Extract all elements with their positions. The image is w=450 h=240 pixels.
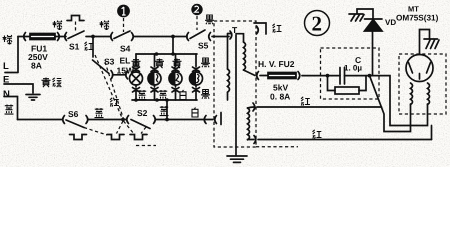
label red above S3 links [110, 98, 119, 107]
label red at transformer top [273, 24, 282, 33]
wire L to fuse with connector [18, 33, 30, 41]
motor3 bottom lead [193, 85, 200, 100]
terminal E wire [4, 84, 33, 93]
svg-text:2: 2 [312, 12, 323, 36]
chassis ground at magnetron [424, 39, 439, 49]
wire fuse to S1 with connector pair [55, 33, 67, 41]
svg-text:S3: S3 [104, 57, 115, 67]
wire HV lead to FU2 [257, 72, 268, 80]
lamp EL [130, 72, 143, 85]
label black at S5 [205, 15, 214, 24]
link junction to door hook 3 [124, 121, 135, 134]
branch S3 vertical [92, 37, 94, 58]
switch S3 [93, 60, 128, 79]
svg-text:VD: VD [385, 18, 396, 27]
link timer to S5 [196, 16, 198, 30]
svg-text:E: E [3, 75, 9, 86]
node at capacitor left [326, 74, 330, 78]
filament lead bottom (red) [248, 136, 432, 144]
loads feed from S4 node [172, 37, 174, 55]
svg-text:15W: 15W [117, 66, 135, 76]
resistor (bleeder) in parallel [328, 76, 367, 94]
svg-text:8A: 8A [31, 61, 42, 71]
label yellow-green at earth [42, 78, 62, 88]
terminal N wire [4, 97, 18, 120]
door hook bottom 1 [70, 135, 87, 140]
label white wire [192, 108, 198, 118]
label S1 [69, 42, 80, 52]
magnetron anode lead to ground [420, 30, 430, 55]
motor1 column top lead [151, 54, 158, 72]
capacitor enclosure box [321, 48, 380, 99]
lamp bottom lead [133, 85, 140, 100]
label blue after S6 [95, 108, 104, 118]
label L [3, 61, 9, 72]
svg-text:S1: S1 [69, 42, 80, 52]
link timer to S4 [123, 18, 125, 32]
chassis ground left of VD [349, 14, 364, 21]
svg-text:N: N [3, 89, 10, 100]
label S4 [120, 44, 131, 54]
svg-text:S2: S2 [137, 108, 148, 118]
callout circled 2 [305, 11, 330, 36]
svg-text:H. V. FU2: H. V. FU2 [258, 59, 295, 69]
transformer grounded core line [235, 35, 237, 155]
link door hook to S1 [75, 22, 77, 34]
enclosure bottom extension [256, 146, 298, 148]
label red at top filament wire [301, 97, 310, 106]
diode VD [365, 19, 383, 31]
door hook bottom 2 [107, 135, 124, 140]
link S3 to door hook diagonal long [95, 55, 123, 119]
node after S1 [91, 35, 95, 39]
motor2 bottom lead [172, 85, 179, 100]
label E [3, 75, 9, 86]
svg-text:T: T [232, 25, 238, 35]
left filament choke [411, 83, 413, 105]
label H.V. FU2 5kV 0.8A [258, 59, 295, 102]
lamp column top lead [133, 54, 140, 72]
rail to S2 node [166, 100, 168, 120]
connector on white wire [204, 116, 206, 124]
node wire to right choke [370, 76, 428, 126]
svg-text:EL: EL [120, 56, 131, 66]
label S5 [198, 41, 209, 51]
magnetron MT body [406, 55, 433, 82]
earth ground symbol [26, 95, 40, 101]
dashes under hook 3 [136, 145, 156, 147]
link junction to door hook 2 [117, 121, 124, 134]
label S2 [137, 108, 148, 118]
filament lead top (red) [248, 103, 382, 111]
label brown at terminal L [3, 35, 13, 45]
switch S6 [63, 116, 126, 128]
label EL 15W [117, 56, 135, 76]
motor M2 [169, 72, 182, 85]
label S6 [68, 109, 79, 119]
loads top rail [136, 52, 197, 56]
transformer HV winding [236, 34, 255, 76]
timer cam 1 [117, 5, 130, 18]
labels blue blue white black at loads bottom [138, 90, 211, 100]
node at S2 output [165, 118, 169, 122]
door hook top [67, 16, 84, 21]
fuse FU1 [30, 34, 55, 40]
switch S2 [127, 116, 213, 129]
right filament choke [428, 83, 430, 105]
capacitor C [328, 68, 370, 85]
diagonal wire from node to left choke [370, 76, 411, 132]
wire node to S5 [173, 36, 187, 38]
label N [3, 89, 10, 100]
svg-text:S6: S6 [68, 109, 79, 119]
transformer filament winding [248, 108, 250, 140]
link S3 diagonal short [105, 62, 124, 119]
svg-text:L: L [3, 61, 9, 72]
transformer T primary winding [228, 34, 232, 101]
connector to transformer primary [230, 31, 232, 39]
label blue after S2 [160, 106, 169, 116]
svg-text:S4: S4 [120, 44, 131, 54]
node before S2 [121, 118, 125, 122]
label FU1 250V 8A [28, 44, 48, 71]
link S6 to hook [84, 128, 107, 136]
label brown after fuse [53, 21, 63, 31]
timer cam 2 [191, 4, 202, 15]
transformer core ground [227, 156, 247, 162]
motor M1 [148, 72, 161, 85]
loads bottom rail [132, 98, 197, 102]
bottom bus N to S6 [18, 119, 63, 121]
white wire hook into transformer [215, 113, 221, 125]
diode VD vertical lead [370, 31, 373, 76]
label blue at N [5, 105, 14, 115]
motor3 column top lead [193, 54, 200, 72]
switch S5 [187, 30, 229, 41]
dashed mechanical links and enclosure boxes [76, 16, 447, 147]
red stub bracket at transformer top [254, 23, 266, 34]
door hook bottom 3 [130, 135, 147, 140]
labels yellow at loads [132, 59, 182, 69]
label C value [344, 55, 362, 73]
svg-text:MT: MT [408, 5, 419, 14]
node at capacitor right [368, 74, 372, 78]
svg-text:0. 8A: 0. 8A [270, 92, 290, 102]
terminal L lead-in corner [5, 37, 18, 73]
svg-text:OM75S(31): OM75S(31) [396, 14, 439, 23]
motor2 column top lead [172, 54, 179, 72]
switch S4 [111, 31, 173, 41]
label brown before S4 [100, 21, 110, 31]
motor M3 [190, 72, 203, 85]
label S3 [104, 57, 115, 67]
label red at S1 [85, 42, 94, 51]
switch S1 [68, 31, 93, 39]
fuse FU2 [268, 73, 296, 79]
motor1 bottom lead [151, 85, 158, 100]
label T [232, 25, 238, 35]
wire FU2 to capacitor node [298, 72, 327, 80]
label MT OM75S(31) [396, 5, 439, 23]
svg-text:S5: S5 [198, 41, 209, 51]
diode to chassis ground wire [357, 9, 373, 19]
node after S4 [171, 35, 175, 39]
label red at bottom filament wire [313, 130, 322, 139]
label black at load 4 top [201, 58, 210, 67]
magnetron enclosure box [399, 54, 446, 114]
paper background [0, 0, 450, 167]
bottom red wire corner up [431, 126, 433, 140]
link S2 to hook [141, 127, 146, 134]
svg-text:1. 0µ: 1. 0µ [344, 64, 362, 73]
wire S1 node to S4 [93, 36, 111, 38]
label VD [385, 18, 396, 27]
transformer enclosure box [214, 21, 256, 147]
